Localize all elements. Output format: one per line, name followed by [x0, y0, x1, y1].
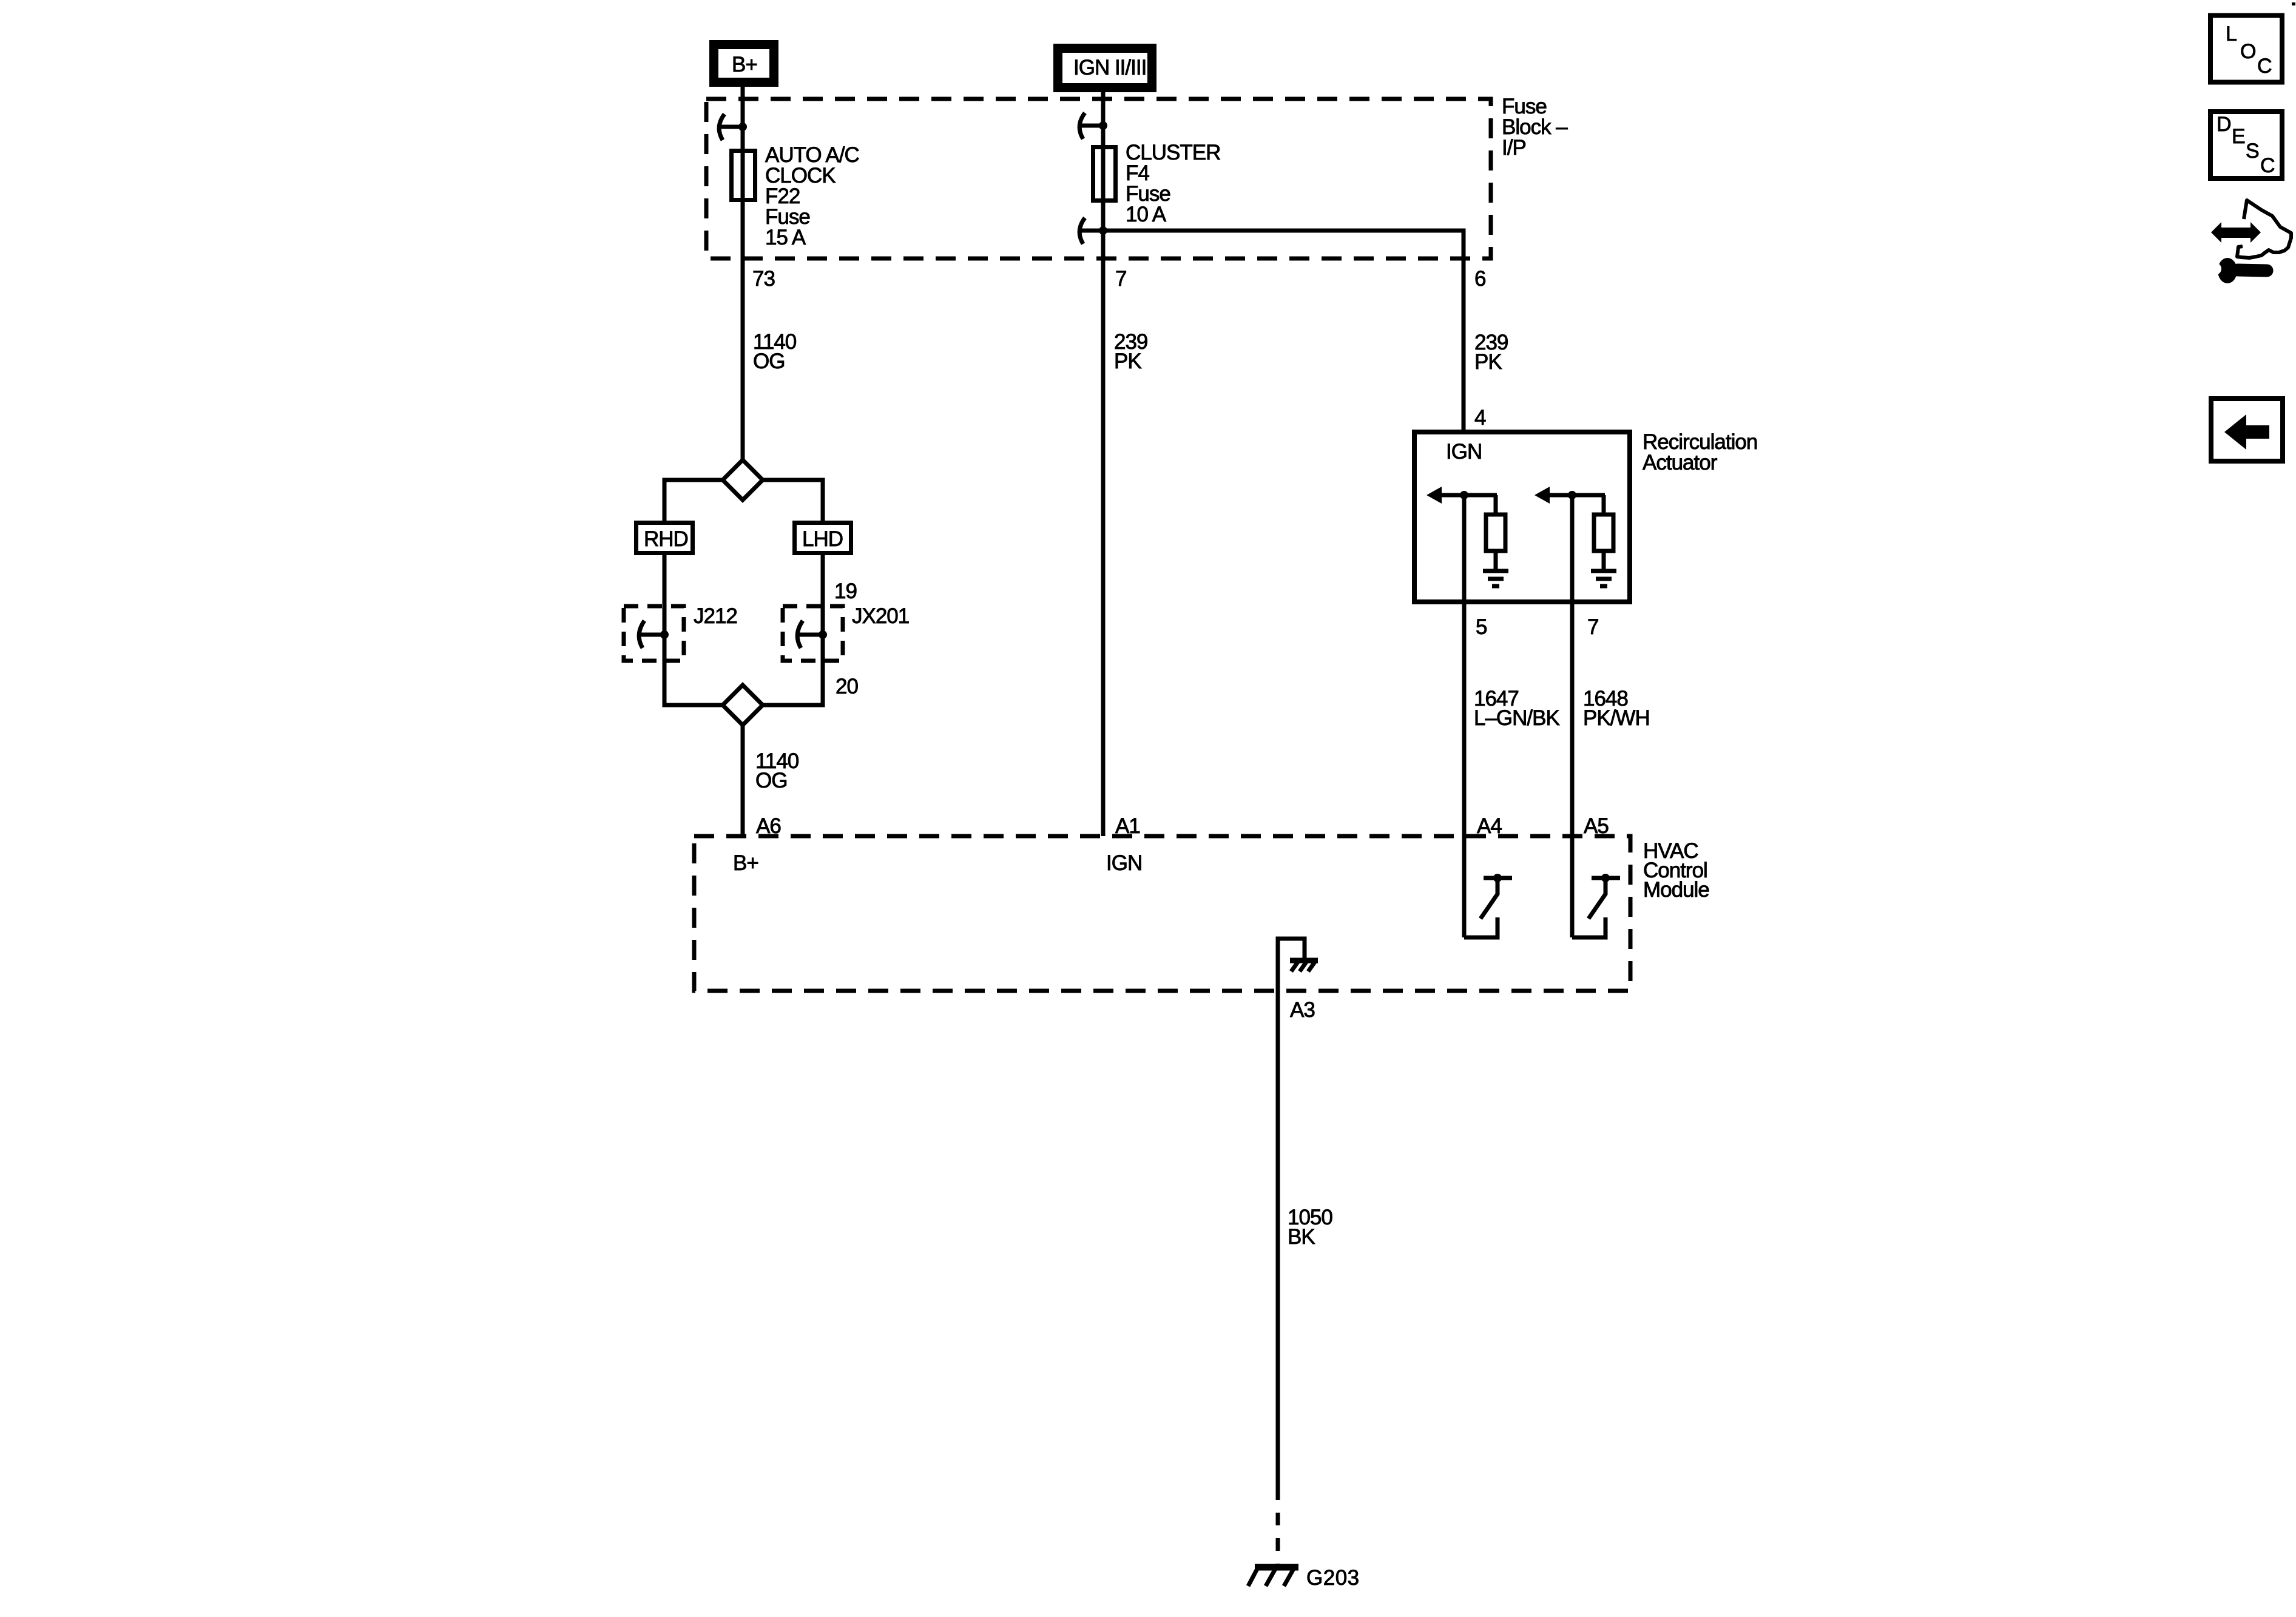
switch SW2 at pin A5 [1572, 874, 1620, 937]
actuator resistor R2 [1594, 495, 1613, 569]
option box RHD [636, 523, 693, 553]
wire actuator pin 5 down (1647) [1462, 495, 1467, 937]
option box LHD [795, 523, 851, 553]
svg-text:OG: OG [755, 769, 787, 792]
svg-text:A4: A4 [1477, 814, 1502, 838]
svg-text:B+: B+ [733, 851, 758, 875]
power feed box B+ [714, 45, 774, 83]
svg-text:J212: J212 [694, 604, 737, 628]
wire 239 PK from F4 junction down to HVAC pin A1 [1101, 231, 1106, 836]
ground G203 [1248, 1565, 1360, 1590]
wire through J212 [663, 605, 667, 660]
svg-text:D: D [2217, 113, 2231, 136]
svg-text:OG: OG [753, 349, 785, 373]
wire 1140 OG from fuse block pin 73 down to splice S1 [741, 258, 745, 462]
splice diamond S1 [723, 460, 763, 500]
svg-text:6: 6 [1474, 267, 1485, 291]
label Recirculation Actuator [1643, 430, 1757, 474]
svg-text:IGN: IGN [1446, 440, 1482, 464]
svg-text:B+: B+ [732, 53, 757, 76]
svg-text:73: 73 [752, 267, 775, 291]
svg-text:I/P: I/P [1502, 136, 1526, 160]
svg-text:PK: PK [1474, 350, 1502, 374]
connector terminal inside J212 [639, 621, 669, 648]
wire 1140 OG from splice S2 to HVAC pin A6 [741, 724, 745, 836]
svg-text:20: 20 [836, 675, 858, 698]
svg-text:BK: BK [1288, 1225, 1315, 1249]
svg-text:IGN II/III: IGN II/III [1073, 56, 1146, 79]
svg-text:Actuator: Actuator [1643, 451, 1718, 474]
svg-text:15 A: 15 A [765, 226, 806, 249]
svg-text:PK: PK [1114, 349, 1141, 373]
svg-text:LHD: LHD [802, 527, 843, 551]
actuator motor M2 arrow [1535, 487, 1605, 504]
sidebar icon LOC box [2210, 16, 2282, 83]
splice diamond S2 [723, 685, 763, 725]
ground symbol inside actuator right [1591, 571, 1616, 586]
svg-text:4: 4 [1474, 406, 1486, 430]
svg-text:Module: Module [1643, 878, 1709, 902]
fuse F22 AUTO A/C CLOCK 15 A [732, 143, 859, 249]
wire 1050 BK from HVAC pin A3 down [1276, 991, 1280, 1487]
svg-text:A1: A1 [1115, 814, 1140, 838]
wire label 1648 PK/WH [1583, 687, 1650, 730]
svg-text:RHD: RHD [644, 527, 688, 551]
wire from B+ feed down through fuse F22 to fuse block exit [741, 87, 745, 258]
wire label 1140 OG [753, 330, 797, 373]
wire from IGN II/III feed down through fuse F4 to junction [1101, 92, 1106, 231]
svg-text:G203: G203 [1306, 1566, 1360, 1590]
wire JX201 to splice S2, pin 20 [743, 660, 823, 705]
svg-text:C: C [2257, 55, 2272, 78]
svg-text:IGN: IGN [1106, 851, 1142, 875]
wire label 239 PK right [1474, 331, 1508, 374]
fuse block dashed box Fuse Block - I/P [706, 99, 1491, 258]
label HVAC Control Module [1643, 839, 1709, 902]
svg-text:10 A: 10 A [1126, 203, 1167, 226]
in-line connector J212 dashed box [624, 604, 737, 661]
wire LHD to JX201, pin 19 [821, 553, 825, 605]
actuator resistor R1 [1486, 495, 1505, 569]
sidebar navigation icon outline shape [2237, 200, 2291, 258]
wire label 1050 BK [1288, 1206, 1332, 1249]
in-line connector JX201 dashed box [783, 604, 909, 661]
power feed box IGN II/III [1058, 49, 1152, 88]
wire label 239 PK middle [1114, 330, 1147, 373]
actuator motor M1 arrow [1427, 487, 1497, 504]
wire actuator pin 7 down (1648) [1570, 495, 1575, 937]
svg-text:PK/WH: PK/WH [1583, 706, 1650, 730]
svg-text:O: O [2240, 40, 2255, 63]
ground symbol inside actuator left [1483, 571, 1508, 586]
connector terminal at IGN II/III input [1079, 113, 1107, 139]
switch SW1 at pin A4 [1464, 874, 1512, 937]
recirculation actuator box [1414, 432, 1630, 602]
connector terminal at B+ input [719, 114, 747, 140]
sidebar navigation icon double arrow [2211, 222, 2261, 243]
svg-text:S: S [2246, 140, 2259, 163]
connector terminal inside JX201 [797, 621, 827, 648]
svg-text:C: C [2260, 154, 2275, 177]
dashed wire section to G203 [1276, 1487, 1280, 1565]
sidebar icon DESC box [2210, 112, 2282, 178]
wire label 1140 OG lower [755, 749, 799, 792]
svg-text:L–GN/BK: L–GN/BK [1474, 706, 1559, 730]
sidebar icon back arrow box [2211, 399, 2283, 461]
branch wire right from splice to LHD [743, 480, 823, 522]
wire RHD to J212 [663, 553, 667, 605]
wire 239 PK from F4 junction right to fuse block pin 6 [1103, 231, 1464, 430]
svg-text:5: 5 [1476, 615, 1487, 639]
svg-text:7: 7 [1587, 615, 1598, 639]
branch wire left from splice to RHD [664, 480, 742, 522]
svg-text:L: L [2226, 22, 2237, 46]
wire label 1647 L-GN/BK [1474, 687, 1559, 730]
svg-text:A3: A3 [1290, 998, 1315, 1022]
fuse F4 CLUSTER 10 A [1093, 141, 1221, 226]
sidebar navigation icon wrench [2209, 258, 2267, 283]
svg-text:A6: A6 [756, 814, 781, 838]
svg-text:7: 7 [1115, 267, 1126, 291]
svg-text:19: 19 [834, 579, 857, 603]
svg-text:A5: A5 [1584, 814, 1609, 838]
wire J212 to splice S2 [664, 660, 742, 705]
HVAC control module dashed box [694, 836, 1630, 991]
chassis ground symbol inside HVAC [1290, 960, 1318, 971]
label Fuse Block - I/P [1502, 95, 1568, 160]
svg-text:E: E [2232, 125, 2245, 148]
scan artifact dot top right [2292, 2, 2295, 5]
wire through JX201 [821, 605, 825, 660]
connector terminal at F4 output junction [1079, 218, 1107, 244]
internal ground hook inside HVAC at A3 [1278, 939, 1305, 991]
svg-text:JX201: JX201 [852, 604, 909, 628]
